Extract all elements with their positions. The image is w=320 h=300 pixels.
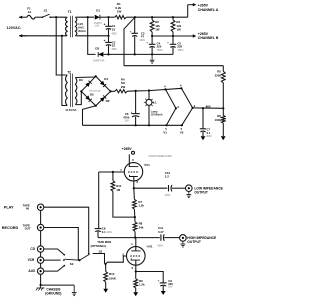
node V1 cathode <box>133 187 135 189</box>
jack tape out <box>37 224 43 230</box>
lamp L1 <box>144 91 154 126</box>
label 120VAC <box>7 26 21 30</box>
node L1 bottom <box>148 124 150 126</box>
ground R6 <box>221 136 226 140</box>
node S3 tape contact <box>88 253 90 255</box>
B+ rail to R5 <box>124 65 223 67</box>
fuse F1 labels <box>27 7 32 14</box>
label D4 <box>104 77 108 81</box>
svg-text:D5: D5 <box>90 93 94 97</box>
svg-text:D1: D1 <box>96 8 100 12</box>
resistor R1 <box>115 16 127 19</box>
svg-text:S2: S2 <box>70 262 74 266</box>
node V1 heater pin4 <box>164 88 166 90</box>
label T2 secondary rating <box>65 108 76 112</box>
label half V1 b <box>146 244 153 248</box>
svg-text:12V/60mA: 12V/60mA <box>151 114 163 117</box>
transformer T1 primary <box>66 17 68 36</box>
label pin 9 V1 <box>177 105 179 109</box>
label pin 1 <box>131 242 133 246</box>
label T1 <box>68 10 72 14</box>
node divider junction <box>222 107 224 109</box>
label C7 <box>206 128 212 138</box>
ground R9 <box>133 292 138 296</box>
resistor R2 <box>150 17 154 36</box>
svg-text:16V: 16V <box>125 119 130 122</box>
svg-text:2.2: 2.2 <box>165 174 169 178</box>
node grid R11 tap <box>112 171 114 173</box>
node bridge top <box>95 75 97 77</box>
label R2 <box>155 20 160 31</box>
svg-text:1W: 1W <box>117 10 122 14</box>
resistor R10 <box>104 265 108 289</box>
label L1 <box>153 100 157 104</box>
resistor R9 <box>134 272 138 293</box>
ground symbol upper rail <box>150 54 155 63</box>
svg-text:+265V: +265V <box>198 3 209 7</box>
svg-text:D3: D3 <box>79 78 83 82</box>
label R8 <box>139 222 144 230</box>
label low impedance output <box>194 186 223 194</box>
svg-text:VCR: VCR <box>28 258 35 262</box>
transformer T1 secondary <box>75 17 77 36</box>
svg-text:1W: 1W <box>155 27 160 31</box>
wire tape in to S3 <box>44 207 89 253</box>
earth ground right <box>72 285 77 296</box>
svg-text:L1: L1 <box>153 100 157 104</box>
node V1 heater pin9 <box>175 107 177 109</box>
label R3 <box>176 20 181 31</box>
wire and arrow +265V channel A <box>188 3 197 17</box>
label TAPE IN <box>23 203 30 210</box>
wire V2 cathode lead <box>135 260 137 271</box>
ground low-Z jack <box>186 192 191 198</box>
resistor R7 <box>133 188 137 217</box>
svg-text:S1: S1 <box>44 9 48 13</box>
label tape mon <box>91 240 112 253</box>
capacitor C3 <box>130 17 138 54</box>
svg-text:1N4007-6A: 1N4007-6A <box>93 60 105 63</box>
ground C7 <box>201 136 206 140</box>
wire T2 secondary top to bridge top <box>75 76 95 79</box>
svg-text:CHANNEL A: CHANNEL A <box>198 8 219 12</box>
wire rail R1 to bend <box>135 16 188 18</box>
label C2 <box>111 40 117 51</box>
svg-text:½V1: ½V1 <box>146 244 153 248</box>
label T1 secondary rating <box>77 22 86 33</box>
capacitor C7 <box>200 108 206 136</box>
node V2 plate <box>134 237 136 239</box>
heater supply rail <box>127 88 182 91</box>
wire down to T2 primary top <box>56 17 66 75</box>
label R7 <box>138 200 144 208</box>
svg-text:+: + <box>167 40 169 44</box>
svg-text:100K: 100K <box>109 277 117 281</box>
svg-text:V1: V1 <box>163 131 167 135</box>
label D1 type <box>94 23 103 28</box>
label pin 4 V1 <box>164 85 166 89</box>
wire T1 secondary bottom to mid node <box>77 35 109 37</box>
label pin 9 V2 <box>194 104 196 108</box>
svg-text:+265V: +265V <box>198 32 209 36</box>
label pin 4 V2 <box>180 84 182 88</box>
grid junction marker <box>104 263 107 265</box>
node R3 top <box>172 16 174 18</box>
label pin 3 <box>132 266 134 270</box>
wire pin9 to divider node <box>193 107 224 109</box>
svg-text:+: + <box>146 40 148 44</box>
diode D6 <box>100 95 106 101</box>
capacitor C2 <box>104 36 112 55</box>
node bridge left <box>80 90 82 92</box>
wire and arrow +265V channel B <box>152 34 196 37</box>
svg-text:T1: T1 <box>68 10 72 14</box>
node bridge bottom <box>95 105 97 107</box>
label D5 <box>90 93 94 97</box>
resistor R3 <box>171 17 175 36</box>
wire tape out to selector <box>44 228 79 261</box>
svg-text:IN: IN <box>26 207 29 211</box>
svg-text:OUTPUT: OUTPUT <box>194 190 208 194</box>
label C1 <box>111 24 117 35</box>
wire doubler tap down to D2 <box>88 17 96 54</box>
label C5 <box>177 41 183 51</box>
node doubler tap <box>87 16 89 18</box>
wire bridge bottom to ground rail <box>83 106 96 126</box>
label R6 <box>215 114 222 122</box>
label S2 <box>70 262 74 266</box>
wire S3 to grid junction <box>93 254 105 264</box>
diode D5 <box>85 95 91 101</box>
svg-text:1.6A: 1.6A <box>94 24 99 27</box>
svg-text:AUX: AUX <box>28 269 36 273</box>
label C3 <box>139 31 145 41</box>
V2 heater wires <box>181 88 192 125</box>
svg-text:+: + <box>158 278 160 282</box>
svg-text:+265V: +265V <box>122 147 133 151</box>
heater supply rail left <box>111 90 115 92</box>
svg-text:100k: 100k <box>215 118 222 122</box>
node C7 tap <box>202 107 204 109</box>
node R2 top <box>151 16 153 18</box>
tube V2 plate <box>131 250 140 252</box>
node junction bottom AC <box>61 35 63 37</box>
wire D1 to C1 node <box>100 16 108 18</box>
wire down to T2 primary bottom <box>62 36 66 106</box>
ground C9 <box>161 291 166 295</box>
node V2 heater pin4 <box>180 87 182 89</box>
wire plate V1 <box>128 154 130 166</box>
transformer T2 core <box>70 74 72 107</box>
svg-text:400V: 400V <box>165 194 171 197</box>
wire plate node to C11 <box>135 237 160 239</box>
svg-text:22: 22 <box>112 44 116 48</box>
wire cathode to C9 <box>136 272 163 283</box>
svg-text:D4: D4 <box>104 77 108 81</box>
node C2 bottom <box>107 53 109 55</box>
node V2 heater pin5 <box>181 124 183 126</box>
svg-text:VAC: VAC <box>78 25 85 29</box>
tube V1a cathode <box>130 175 138 177</box>
AC line input arrow (neutral) <box>19 34 66 37</box>
label S1 <box>44 9 48 13</box>
label pin 2 <box>122 253 124 257</box>
svg-text:OUT: OUT <box>25 227 31 231</box>
wire vcr to S2 <box>44 259 65 261</box>
resistor R6 <box>221 108 225 136</box>
label +265V supply <box>122 147 133 151</box>
node junction to T2 primary <box>55 16 57 18</box>
svg-text:CD: CD <box>30 247 35 251</box>
label R4 <box>121 78 126 89</box>
label RECORD <box>2 226 19 230</box>
jack ground chain <box>40 210 42 285</box>
jack high impedance output <box>180 235 187 242</box>
wire V1 grid <box>99 171 125 173</box>
svg-text:450V: 450V <box>111 33 117 36</box>
label pin 6 <box>132 158 134 162</box>
tube V2 cathode <box>131 258 140 260</box>
svg-text:400V: 400V <box>139 39 145 42</box>
node R3 bottom <box>172 35 174 37</box>
node C4 bottom ground tap <box>151 53 153 55</box>
svg-text:12.6V/3A: 12.6V/3A <box>65 108 76 112</box>
terminal +265V <box>132 151 135 154</box>
svg-text:1W: 1W <box>176 27 181 31</box>
label pin 5 V2 <box>181 127 183 131</box>
svg-text:RECORD: RECORD <box>2 226 19 230</box>
wire aux to S2 <box>44 265 65 271</box>
label C9 <box>168 279 173 289</box>
ground R10 <box>103 289 108 293</box>
label R1 <box>115 2 121 14</box>
wire grid net down to C8 <box>98 172 100 228</box>
V1 heater wires <box>166 89 176 125</box>
wire V2 grid lead <box>105 256 127 264</box>
fuse F1 <box>27 15 35 19</box>
label half V1 a <box>144 163 151 167</box>
transformer T1 core <box>70 16 72 37</box>
label D2 type <box>93 60 105 63</box>
label V2 heater <box>180 131 184 135</box>
svg-text:0.1: 0.1 <box>102 230 106 234</box>
label pin 8 <box>137 180 139 184</box>
svg-text:220k: 220k <box>215 73 222 77</box>
chassis ground label <box>45 287 61 295</box>
bridge diamond <box>81 76 110 106</box>
svg-text:22: 22 <box>112 27 116 31</box>
diode D3 <box>85 81 91 87</box>
wire diagonal B+ feed <box>124 17 135 65</box>
svg-text:12AX7A/ECC83: 12AX7A/ECC83 <box>148 154 172 158</box>
label L1 rating <box>151 110 163 116</box>
label high impedance output <box>187 236 217 244</box>
transformer T2 secondary <box>75 78 77 105</box>
label CD <box>30 247 35 251</box>
svg-text:24k: 24k <box>139 225 144 229</box>
svg-text:+: + <box>104 39 106 43</box>
label C6 <box>123 112 130 122</box>
node L1 top <box>148 89 150 91</box>
label C10 <box>165 171 171 197</box>
node V1 heater pin5 <box>165 124 167 126</box>
tube V1a grid <box>128 171 139 173</box>
switch S3 blade <box>80 254 89 260</box>
svg-text:1.2k: 1.2k <box>138 204 144 208</box>
label VCR <box>28 258 35 262</box>
wire C10 to jack <box>172 187 186 189</box>
node bridge right <box>109 90 111 92</box>
svg-text:400V: 400V <box>157 244 163 247</box>
jack tape in <box>37 204 43 210</box>
jack low impedance output <box>186 185 193 192</box>
capacitor C4 <box>146 36 155 54</box>
wire C1 node to R1 <box>109 16 115 18</box>
label T2 <box>67 70 71 74</box>
wire plate node <box>98 237 135 239</box>
node C6 top <box>135 90 137 92</box>
label 86V <box>206 104 211 108</box>
svg-text:350V: 350V <box>178 49 184 52</box>
diode D4 <box>100 81 106 87</box>
label D3 <box>79 78 83 82</box>
svg-text:450V: 450V <box>111 48 117 51</box>
wire cathode to C10 <box>134 187 168 189</box>
svg-text:½V1: ½V1 <box>144 163 151 167</box>
svg-text:D2: D2 <box>95 47 99 51</box>
tube V2 envelope <box>127 247 146 266</box>
svg-text:100mA: 100mA <box>77 29 86 33</box>
wire switch to T1 <box>50 16 66 18</box>
tube V1a envelope <box>124 163 142 181</box>
svg-text:PLAY: PLAY <box>4 206 14 210</box>
label D2 <box>95 47 99 51</box>
resistor R11 <box>111 172 135 217</box>
lower ground rail <box>83 124 184 126</box>
node C1 top <box>107 16 109 18</box>
label +265V channel A <box>198 3 219 11</box>
chassis bus <box>40 284 75 286</box>
switch S1 <box>42 14 51 18</box>
node mid rail <box>107 35 109 37</box>
label V1 heater <box>163 131 167 135</box>
tube V2 grid <box>130 255 141 257</box>
jack vcr <box>37 257 43 263</box>
chassis ground symbol <box>36 285 45 291</box>
AC line input arrow (hot) <box>19 16 27 19</box>
capacitor C5 <box>167 36 176 54</box>
node V2 heater pin9 <box>192 107 194 109</box>
wire cd to S2 <box>44 249 65 256</box>
svg-text:86V: 86V <box>206 104 211 108</box>
label pin 7 <box>120 168 122 172</box>
svg-text:D6: D6 <box>106 99 110 103</box>
svg-text:400V: 400V <box>107 231 113 234</box>
node C3 bottom <box>134 53 136 55</box>
diode D2 <box>98 52 103 57</box>
svg-text:+: + <box>131 110 133 114</box>
transformer T2 primary <box>66 75 68 106</box>
label R5 <box>215 70 222 78</box>
svg-text:OUTPUT: OUTPUT <box>187 240 201 244</box>
label D1 <box>96 8 100 12</box>
capacitor C8 <box>95 228 102 237</box>
capacitor C11 <box>161 234 164 240</box>
label V1 type <box>148 154 172 158</box>
label bridge type <box>89 90 101 93</box>
svg-text:+: + <box>104 23 106 27</box>
resistor R4 <box>115 90 127 93</box>
svg-text:(OPTIONAL): (OPTIONAL) <box>91 244 107 248</box>
wire V2 plate lead <box>135 238 137 251</box>
svg-text:16V: 16V <box>168 286 173 289</box>
label C4 <box>157 41 163 51</box>
svg-text:(GROUND): (GROUND) <box>45 292 61 296</box>
label TAPE OUT <box>23 223 31 230</box>
label R11 <box>116 184 122 192</box>
diode D1 <box>95 15 100 20</box>
svg-text:400V: 400V <box>206 135 212 138</box>
wire C11 to jack <box>164 237 179 239</box>
label C11 <box>157 226 164 247</box>
node follower bias <box>134 216 136 218</box>
svg-text:2W: 2W <box>121 85 126 89</box>
label R9 <box>139 279 145 287</box>
wire T2 secondary bottom to bridge left <box>75 92 81 105</box>
node C6 bottom <box>135 124 137 126</box>
switch S2 wiper <box>65 259 81 261</box>
svg-text:R10: R10 <box>109 272 115 276</box>
wire V1 cathode <box>133 177 135 189</box>
label C8 <box>102 226 113 234</box>
wire fuse to switch <box>35 16 42 18</box>
node V2 cathode <box>135 270 137 272</box>
tube V1a plate <box>129 166 139 168</box>
node R2 bottom <box>151 35 153 37</box>
capacitor C9 <box>158 278 167 291</box>
wire T1 secondary top to D1 <box>77 16 94 18</box>
svg-text:CHANNEL B: CHANNEL B <box>198 36 219 40</box>
capacitor C10 <box>169 185 172 191</box>
resistor R8 <box>133 217 137 238</box>
label AUX <box>28 269 36 273</box>
capacitor C1 <box>104 17 112 36</box>
ground high-Z jack <box>181 241 186 247</box>
svg-text:TAPE MON: TAPE MON <box>97 240 111 244</box>
label pin 5 V1 <box>165 127 167 131</box>
label PLAY <box>4 206 14 210</box>
ground rail upper <box>104 53 173 55</box>
capacitor C6 <box>131 91 140 125</box>
svg-text:V2: V2 <box>180 131 184 135</box>
jack aux <box>37 268 43 274</box>
label D6 <box>106 99 110 103</box>
label R10 <box>109 272 117 281</box>
resistor R5 <box>221 66 225 109</box>
svg-text:350V: 350V <box>157 49 163 52</box>
svg-text:+: + <box>130 30 132 34</box>
svg-text:1.2k: 1.2k <box>139 283 145 287</box>
jack cd <box>37 246 43 252</box>
svg-text:0.47: 0.47 <box>158 230 164 234</box>
node R1 output <box>134 16 136 18</box>
svg-text:1M: 1M <box>116 188 121 192</box>
svg-text:120VAC: 120VAC <box>7 26 21 30</box>
label +265V channel B <box>198 32 219 40</box>
wire R1 to node <box>126 16 135 18</box>
